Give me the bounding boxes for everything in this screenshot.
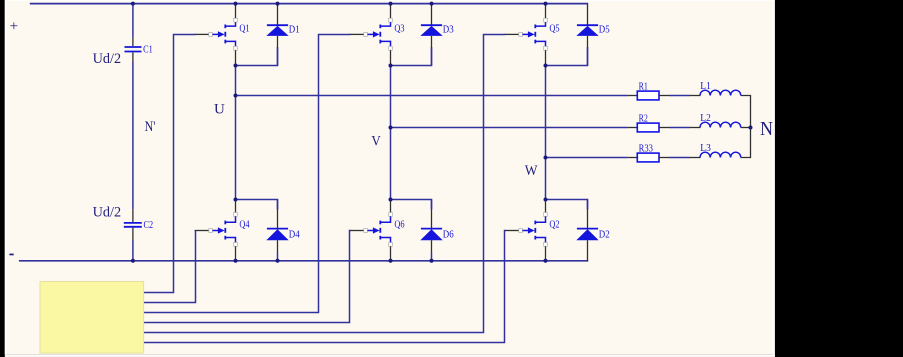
svg-text:+: + <box>10 18 18 34</box>
wire L1 to star point <box>741 96 751 128</box>
junction D3 cathode top rail <box>430 2 434 6</box>
wire C2 to bottom rail <box>132 240 134 261</box>
junction Q1 drain top rail <box>234 2 238 6</box>
junction Q5 source D5 <box>544 64 548 68</box>
capacitor C2 top pin <box>132 209 134 222</box>
wire L2 to star point <box>741 127 751 129</box>
svg-text:Q3: Q3 <box>394 24 404 35</box>
svg-text:C1: C1 <box>143 44 153 55</box>
inductor L2 <box>700 122 741 127</box>
resistor R2 <box>637 123 659 132</box>
resistor R33 right pin <box>659 157 669 159</box>
transistor Q3 <box>350 4 393 64</box>
diode D1 <box>266 4 288 65</box>
junction Q6 source bottom rail <box>389 259 393 263</box>
wire R33 to L3 <box>669 157 690 159</box>
wire gate feed Q2 from driver box <box>144 231 506 343</box>
svg-text:D1: D1 <box>289 24 300 35</box>
wire N' midpoint between C1 and C2 <box>132 62 134 209</box>
svg-text:Q4: Q4 <box>239 220 249 231</box>
svg-text:V: V <box>371 133 381 149</box>
svg-text:R33: R33 <box>639 144 653 155</box>
junction Q5 drain top rail <box>544 2 548 6</box>
junction Q1 source D1 <box>234 64 238 68</box>
wire R2 to L2 <box>669 127 690 129</box>
resistor R2 right pin <box>659 127 669 129</box>
resistor R1 <box>637 91 659 100</box>
diode D4 <box>266 200 288 261</box>
wire bottom DC bus rail (-) <box>19 260 588 262</box>
resistor R33 <box>637 153 659 162</box>
svg-text:Q5: Q5 <box>549 24 559 35</box>
wire phase line U to load <box>236 95 629 97</box>
svg-text:W: W <box>525 163 539 179</box>
inductor L3 left pin <box>690 157 701 159</box>
svg-text:Q6: Q6 <box>394 220 404 231</box>
transistor Q1 <box>195 4 238 64</box>
svg-text:C2: C2 <box>144 220 154 231</box>
wire top cell link Q-D phase W <box>546 47 588 66</box>
wire gate feed Q6 from driver box <box>144 231 351 323</box>
resistor R1 right pin <box>659 95 669 97</box>
diode D5 <box>576 4 598 65</box>
transistor Q2 <box>505 200 548 260</box>
svg-text:Ud/2: Ud/2 <box>93 204 122 220</box>
junction C1 top rail <box>131 2 135 6</box>
wire top cell link Q-D phase U <box>236 47 278 66</box>
junction D1 cathode top rail <box>276 2 280 6</box>
inductor L1 <box>700 90 741 95</box>
resistor pin left phase W <box>628 157 638 159</box>
label - <box>9 254 13 256</box>
wire bottom cell link Q-D phase V <box>391 200 432 210</box>
wire gate feed Q4 from driver box <box>144 231 196 303</box>
wire phase leg U vertical <box>235 66 237 200</box>
junction Q4 drain D4 <box>234 198 238 202</box>
wire capacitor branch upper <box>132 4 134 38</box>
svg-text:D3: D3 <box>443 24 454 35</box>
node U <box>234 94 238 98</box>
diode D2 <box>576 200 598 262</box>
wire phase line W to load <box>546 157 629 159</box>
diode D3 <box>420 4 442 65</box>
resistor pin left phase U <box>628 95 638 97</box>
inductor L2 left pin <box>690 127 701 129</box>
junction Q3 drain top rail <box>389 2 393 6</box>
wire gate feed Q3 from driver box <box>144 35 351 313</box>
capacitor C1 bottom pin <box>132 52 134 62</box>
svg-text:Q1: Q1 <box>239 24 249 35</box>
gate driver block (yellow) <box>40 282 144 354</box>
wire bottom cell link Q-D phase U <box>236 200 278 210</box>
svg-text:D4: D4 <box>289 230 301 241</box>
resistor pin left phase V <box>628 127 638 129</box>
capacitor C2 bottom pin <box>132 228 134 240</box>
junction D6 anode bottom rail <box>430 259 434 263</box>
node W <box>544 156 548 160</box>
inductor L1 left pin <box>690 95 701 97</box>
svg-text:D5: D5 <box>599 24 610 35</box>
svg-text:R1: R1 <box>639 82 648 93</box>
svg-text:Ud/2: Ud/2 <box>93 51 122 67</box>
junction Q4 source bottom rail <box>234 259 238 263</box>
junction Q6 drain D6 <box>389 198 393 202</box>
svg-text:N: N <box>760 119 773 140</box>
junction Q2 source bottom rail <box>544 259 548 263</box>
wire L3 to star point <box>741 128 751 158</box>
capacitor C1 top pin <box>132 38 134 47</box>
wire bottom cell link Q-D phase W <box>546 200 588 210</box>
capacitor C1 <box>125 47 142 52</box>
wire gate feed Q1 from driver box <box>144 35 196 293</box>
junction Q3 source D3 <box>389 64 393 68</box>
svg-text:L3: L3 <box>700 143 711 154</box>
wire phase leg V vertical <box>390 66 392 200</box>
svg-text:R2: R2 <box>639 114 648 125</box>
junction C2 bottom rail <box>131 259 135 263</box>
wire phase line V to load <box>391 127 629 129</box>
wire top cell link Q-D phase V <box>391 47 432 66</box>
transistor Q6 <box>350 200 393 260</box>
capacitor C2 <box>124 223 142 227</box>
transistor Q5 <box>505 4 548 64</box>
wire phase leg W vertical <box>545 66 547 200</box>
wire gate feed Q5 from driver box <box>144 35 506 333</box>
node N star point <box>749 126 753 130</box>
wire top DC bus rail (+) <box>30 3 588 5</box>
inductor L3 <box>700 152 741 157</box>
svg-text:L2: L2 <box>700 113 711 124</box>
svg-text:D6: D6 <box>443 230 454 241</box>
svg-text:N': N' <box>145 119 156 135</box>
junction Q2 drain D2 <box>544 198 548 202</box>
svg-text:Q2: Q2 <box>549 220 559 231</box>
svg-text:D2: D2 <box>599 230 610 241</box>
svg-text:U: U <box>214 102 225 118</box>
transistor Q4 <box>195 200 238 260</box>
svg-text:L1: L1 <box>700 81 711 92</box>
node V <box>389 126 393 130</box>
diode D6 <box>420 200 442 261</box>
junction D4 anode bottom rail <box>276 259 280 263</box>
wire R1 to L1 <box>669 95 690 97</box>
